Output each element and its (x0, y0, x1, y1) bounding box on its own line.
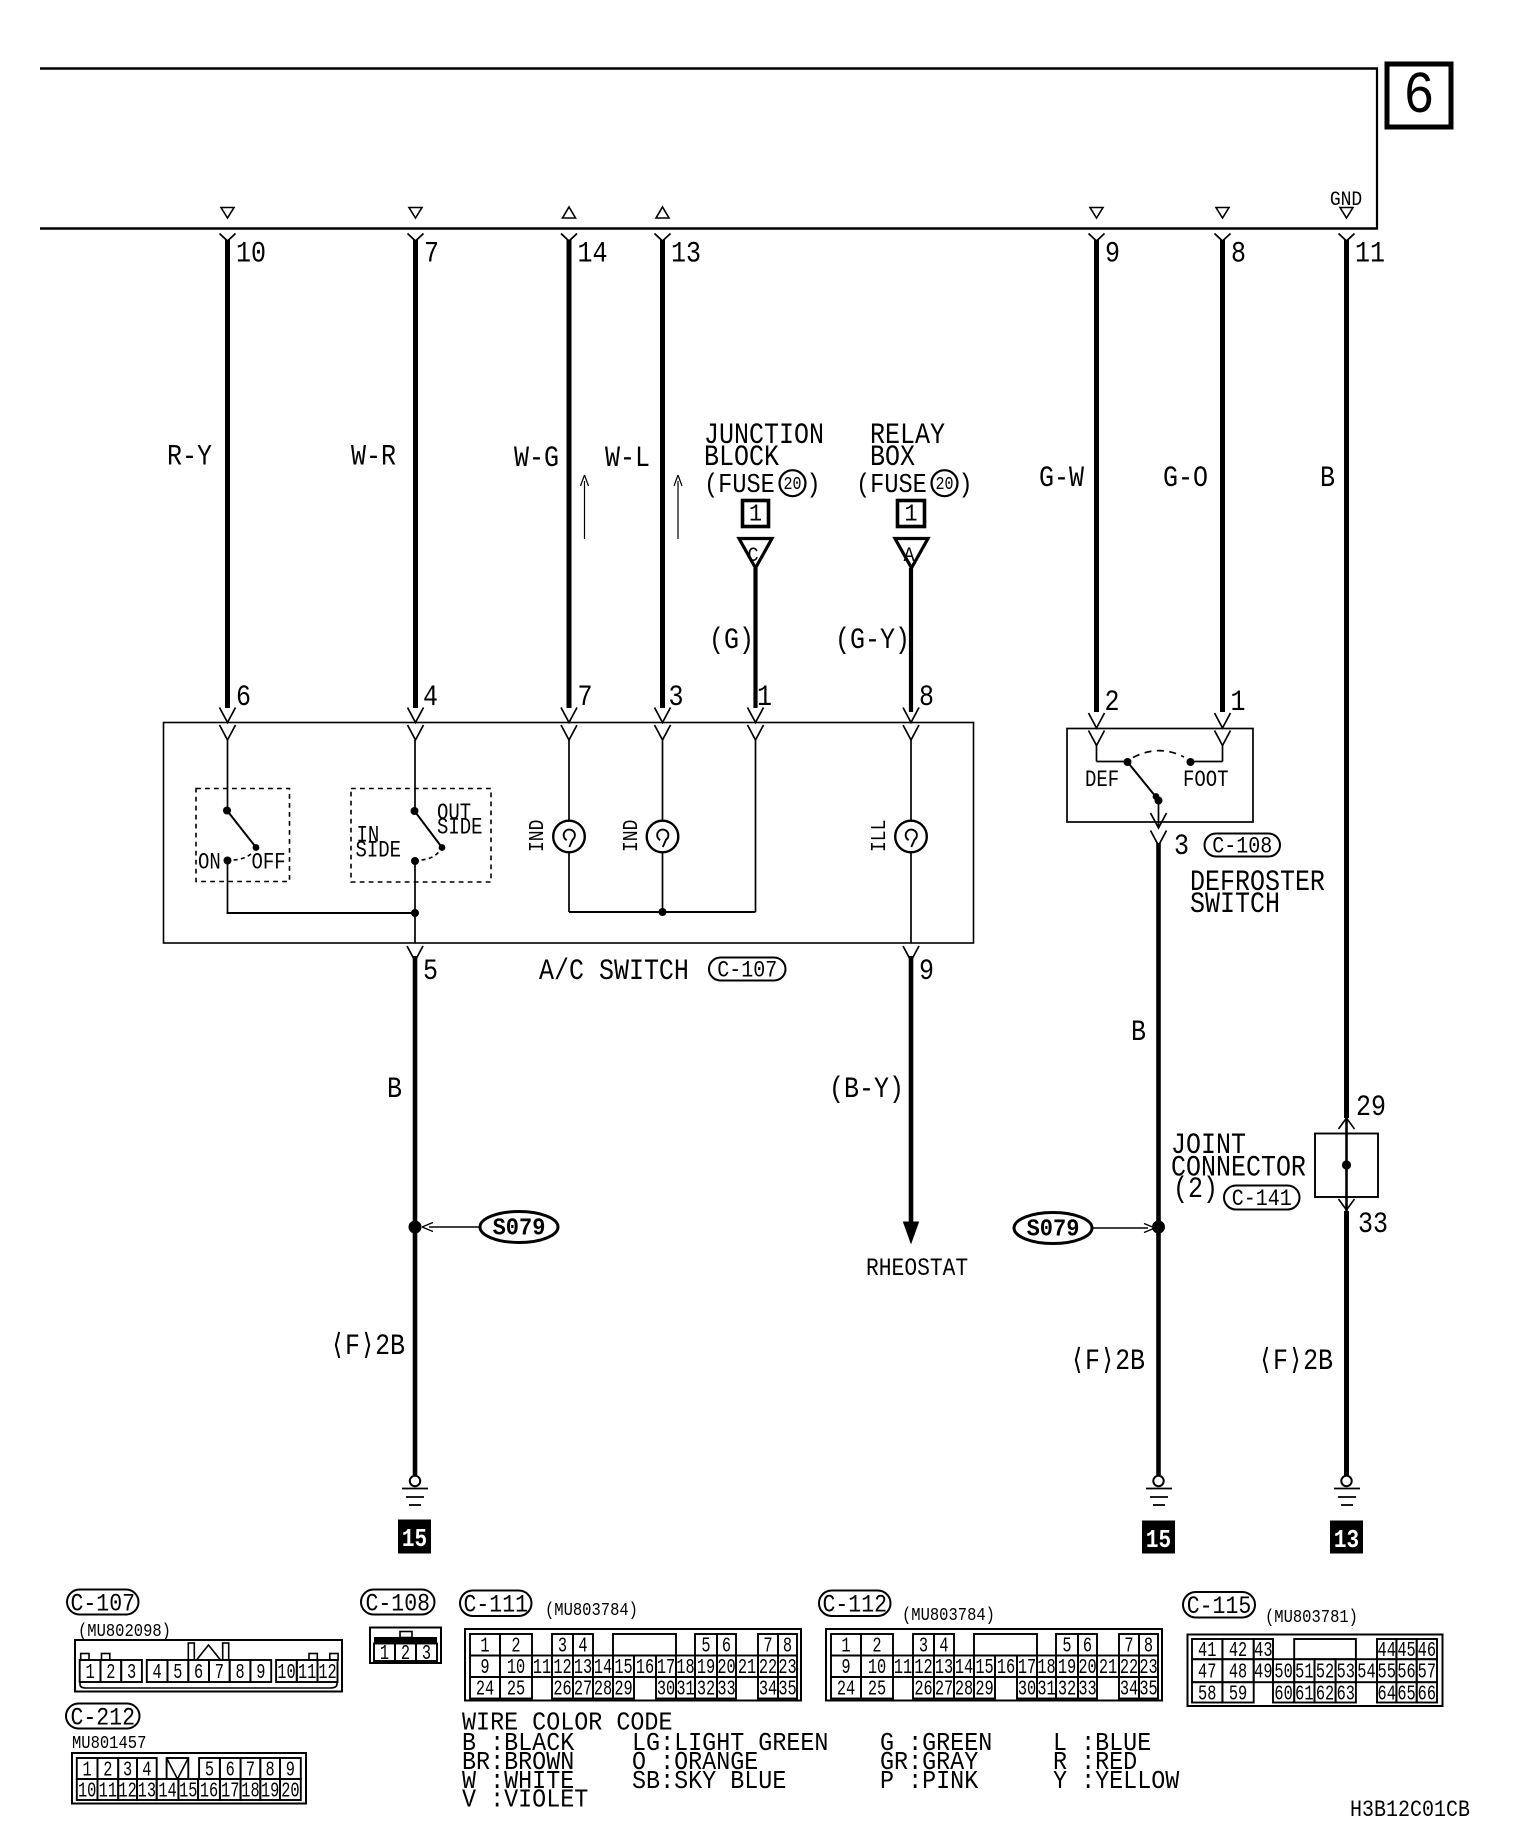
A/C switch pin 4 entry arrows (408, 708, 424, 723)
wire prong at pin 9 (1089, 234, 1105, 242)
svg-text:3: 3 (127, 1661, 136, 1685)
wire prong at pin 7 (408, 234, 424, 242)
svg-text:31: 31 (1037, 1678, 1055, 1702)
svg-text:9: 9 (919, 955, 934, 988)
joint connector body (C-141) (1315, 1134, 1378, 1198)
svg-text:15: 15 (1146, 1526, 1171, 1556)
svg-text:): ) (807, 470, 821, 501)
ground symbol (middle) (1153, 1476, 1163, 1486)
A/C switch pin 9 exit arrow (903, 946, 919, 961)
svg-text:C-115: C-115 (1187, 1593, 1251, 1621)
wire 13 (W-L) vertical (660, 240, 665, 708)
wire from IND lamp 1 down (568, 852, 570, 912)
svg-text:35: 35 (1139, 1678, 1157, 1702)
current-direction arrow beside wire 14 (584, 481, 586, 539)
IN SIDE contact (411, 857, 419, 865)
wire: switch output bus inside A/C switch (228, 912, 416, 914)
svg-text:3: 3 (669, 681, 684, 714)
svg-text:SB:SKY BLUE: SB:SKY BLUE (632, 1767, 786, 1797)
connector symbol (triangle) pin 7 (409, 208, 422, 219)
svg-text:14: 14 (158, 1779, 176, 1803)
svg-text:20: 20 (281, 1779, 299, 1803)
connector label C-108 (bottom, stadium) (361, 1590, 435, 1615)
svg-text:34: 34 (759, 1678, 777, 1702)
splice S079 (left) (480, 1212, 558, 1243)
svg-text:MU801457: MU801457 (72, 1734, 146, 1755)
svg-text:3: 3 (1174, 830, 1189, 863)
ON/OFF switch lever (to OFF) (227, 811, 257, 849)
svg-text:18: 18 (241, 1779, 259, 1803)
svg-text:V :VIOLET: V :VIOLET (462, 1785, 588, 1815)
connector drawing C-212 (72, 1753, 306, 1804)
svg-text:59: 59 (1229, 1682, 1247, 1706)
ON/OFF switch common contact (223, 807, 231, 815)
svg-text:15: 15 (402, 1525, 427, 1555)
svg-text:61: 61 (1295, 1682, 1313, 1706)
wire from common contact out of box (1158, 801, 1160, 829)
svg-text:⟨F⟩2B: ⟨F⟩2B (330, 1330, 405, 1363)
svg-text:RHEOSTAT: RHEOSTAT (866, 1255, 968, 1283)
svg-text:21: 21 (738, 1656, 756, 1680)
svg-text:57: 57 (1418, 1660, 1436, 1684)
IN/OUT switch lever (to OUT SIDE) (415, 811, 443, 848)
wire prong at pin 8 (1215, 234, 1231, 242)
svg-text:1: 1 (380, 1642, 389, 1666)
wire from IN SIDE contact down through box (414, 861, 416, 943)
svg-text:28: 28 (594, 1678, 612, 1702)
ground reference box 15 (middle) (1143, 1521, 1175, 1553)
IN/OUT switch common contact (411, 807, 419, 815)
svg-text:53: 53 (1337, 1660, 1355, 1684)
svg-text:Y :YELLOW: Y :YELLOW (1053, 1767, 1179, 1797)
svg-text:16: 16 (636, 1656, 654, 1680)
wire from pin 1 down to lamp bus (755, 740, 757, 912)
svg-text:29: 29 (614, 1678, 632, 1702)
svg-text:2: 2 (401, 1642, 410, 1666)
svg-text:C: C (747, 544, 758, 567)
svg-text:35: 35 (778, 1678, 796, 1702)
splice junction dot (left) (409, 1221, 422, 1234)
svg-text:19: 19 (261, 1779, 279, 1803)
svg-text:11: 11 (99, 1779, 117, 1803)
wire from A/C pin 9 toward rheostat (B-Y) (909, 956, 914, 1222)
svg-text:C-111: C-111 (464, 1591, 528, 1619)
connector label C-212 (stadium) (66, 1704, 140, 1729)
A/C switch pin 1 entry arrows (748, 708, 764, 723)
svg-text:S079: S079 (1027, 1216, 1080, 1243)
defroster switch pin 1 entry arrows (1215, 713, 1231, 728)
label IND (lamp 2, rotated) (619, 820, 644, 852)
svg-text:B: B (1131, 1016, 1146, 1049)
A/C switch body (C-107) (164, 723, 974, 944)
wire from pin 3 to IND lamp 2 (662, 740, 664, 821)
triangle connector A (relay box) (895, 539, 928, 569)
svg-text:27: 27 (574, 1678, 592, 1702)
connector drawing C-108 (370, 1628, 441, 1664)
defroster switch pin 2 entry arrows (1089, 713, 1105, 728)
svg-text:5: 5 (173, 1661, 182, 1685)
svg-text:7: 7 (215, 1661, 224, 1685)
wire 11 (B) ground wire vertical (1344, 240, 1349, 1118)
defroster common contact (1155, 797, 1163, 805)
wire from A/C pin 5 to ground (B) (413, 956, 418, 1475)
wire 10 (R-Y) vertical (225, 240, 230, 708)
fuse box symbol 1 (junction block) (743, 501, 769, 527)
joint connector internal dot (1342, 1160, 1351, 1169)
svg-text:21: 21 (1099, 1656, 1117, 1680)
svg-text:1: 1 (1231, 686, 1246, 719)
triangle connector C (junction block) (739, 539, 772, 569)
DEF contact (1124, 758, 1132, 766)
svg-text:W-R: W-R (351, 441, 396, 474)
svg-text:7: 7 (578, 681, 593, 714)
svg-text:58: 58 (1198, 1682, 1216, 1706)
connector label C-107 (stadium) (709, 958, 786, 981)
fuse box symbol 1 (relay box) (898, 501, 925, 527)
svg-text:12: 12 (318, 1661, 336, 1685)
circled fuse number 20 (junction block) (780, 470, 806, 496)
svg-text:63: 63 (1337, 1682, 1355, 1706)
current-direction arrow beside wire 13 (677, 481, 679, 539)
svg-text:50: 50 (1274, 1660, 1292, 1684)
arrow into joint connector (1339, 1118, 1355, 1129)
svg-text:56: 56 (1397, 1660, 1415, 1684)
svg-text:B: B (387, 1073, 402, 1106)
svg-text:): ) (959, 470, 973, 501)
wire into IN/OUT switch (414, 740, 416, 810)
svg-text:20: 20 (783, 474, 801, 495)
svg-text:51: 51 (1295, 1660, 1313, 1684)
defroster pin 3 exit arrows (1151, 813, 1167, 828)
connector drawing C-111 (465, 1629, 801, 1701)
svg-text:1: 1 (749, 501, 762, 528)
svg-text:11: 11 (298, 1661, 316, 1685)
defroster lever (DEF to common) (1128, 762, 1157, 797)
connector symbol (triangle) pin 13 (656, 207, 669, 218)
svg-text:DEF: DEF (1085, 769, 1119, 794)
wire through joint connector (thin) (1345, 1118, 1348, 1211)
svg-text:S079: S079 (493, 1215, 546, 1242)
svg-text:(G): (G) (709, 624, 754, 657)
svg-text:16: 16 (200, 1779, 218, 1803)
svg-text:⟨F⟩2B: ⟨F⟩2B (1258, 1345, 1333, 1378)
A/C switch pin 5 exit arrow (407, 946, 423, 961)
svg-text:33: 33 (1358, 1208, 1388, 1241)
connector label C-141 (stadium) (1224, 1186, 1300, 1210)
svg-text:1: 1 (86, 1661, 95, 1685)
wire prong at pin 11 (1339, 234, 1355, 242)
svg-text:(G-Y): (G-Y) (835, 624, 910, 657)
svg-text:10: 10 (277, 1661, 295, 1685)
svg-text:15: 15 (179, 1779, 197, 1803)
svg-text:R-Y: R-Y (167, 441, 212, 474)
svg-text:6: 6 (236, 681, 251, 714)
svg-text:SIDE: SIDE (356, 839, 402, 864)
svg-text:10: 10 (78, 1779, 96, 1803)
svg-text:48: 48 (1229, 1660, 1247, 1684)
svg-text:1: 1 (904, 501, 917, 528)
svg-text:11: 11 (894, 1656, 912, 1680)
ground symbol (right) (1341, 1476, 1351, 1486)
svg-text:8: 8 (1231, 238, 1246, 271)
svg-text:26: 26 (553, 1678, 571, 1702)
svg-text:C-107: C-107 (717, 959, 777, 985)
wire: lamp bus inside A/C switch (569, 911, 756, 913)
svg-text:29: 29 (975, 1678, 993, 1702)
dashed throw indicator (defroster) (1133, 751, 1184, 758)
wire 9 (G-W) vertical (1094, 240, 1099, 712)
wire prong at pin 13 (655, 234, 671, 242)
svg-text:2: 2 (1105, 686, 1120, 719)
junction of lamp bus with pin 3 wire (659, 908, 667, 916)
svg-text:8: 8 (235, 1661, 244, 1685)
svg-text:(MU803784): (MU803784) (545, 1601, 638, 1622)
ground symbol (left) (410, 1476, 420, 1486)
svg-text:16: 16 (997, 1656, 1015, 1680)
wire from IND lamp 2 down (662, 852, 664, 912)
svg-text:4: 4 (153, 1661, 162, 1685)
splice junction dot (right) (1152, 1221, 1165, 1234)
svg-text:17: 17 (221, 1779, 239, 1803)
wire: top feed bus line (40, 67, 1378, 70)
svg-text:27: 27 (935, 1678, 953, 1702)
wire prong at pin 10 (220, 234, 236, 242)
svg-text:55: 55 (1378, 1660, 1396, 1684)
svg-text:C-141: C-141 (1232, 1187, 1292, 1213)
wire 7 (W-R) vertical (413, 240, 418, 708)
svg-text:(MU803784): (MU803784) (902, 1606, 995, 1627)
wire 8 (G-O) vertical (1220, 240, 1225, 712)
svg-text:34: 34 (1120, 1678, 1138, 1702)
connector drawing C-107 (75, 1640, 342, 1692)
svg-text:⟨F⟩2B: ⟨F⟩2B (1070, 1345, 1145, 1378)
wire prong at pin 14 (561, 234, 577, 242)
svg-text:P :PINK: P :PINK (880, 1767, 978, 1797)
arrow out of joint connector (1339, 1199, 1355, 1210)
label IND (lamp 1, rotated) (525, 820, 550, 852)
svg-text:24: 24 (476, 1678, 494, 1702)
junction of ON/OFF bus with pin 5 wire (411, 909, 419, 917)
svg-text:(FUSE: (FUSE (856, 470, 927, 501)
defroster switch body (C-108) (1067, 729, 1253, 823)
svg-text:A: A (903, 544, 914, 567)
wire from defroster pin 3 to ground (B) (1156, 843, 1161, 1475)
svg-text:(MU803781): (MU803781) (1265, 1608, 1358, 1629)
A/C switch pin 8 entry arrows (903, 708, 919, 723)
svg-text:64: 64 (1378, 1682, 1396, 1706)
svg-text:11: 11 (1355, 238, 1385, 271)
svg-text:ILL: ILL (867, 820, 892, 852)
svg-text:60: 60 (1274, 1682, 1292, 1706)
ground reference box 15 (left) (399, 1520, 431, 1553)
svg-text:SIDE: SIDE (437, 816, 483, 841)
wire pin 2 to DEF contact (1096, 746, 1098, 762)
circled fuse number 20 (relay box) (932, 470, 958, 496)
svg-text:14: 14 (578, 238, 608, 271)
A/C ON/OFF switch dashed enclosure (196, 789, 290, 882)
A/C switch pin 6 entry arrows (220, 708, 236, 723)
A/C IN SIDE/OUT SIDE switch dashed enclosure (351, 789, 491, 883)
wire from pin 7 to IND lamp 1 (568, 740, 570, 821)
svg-text:IND: IND (525, 820, 550, 852)
svg-text:30: 30 (1018, 1678, 1036, 1702)
wire from pin 8 to ILL lamp (910, 740, 912, 821)
indicator lamp IND 1 (553, 821, 585, 853)
connector label C-115 (stadium) (1183, 1592, 1255, 1618)
wire 11 lower segment to ground (1344, 1211, 1349, 1476)
svg-text:IND: IND (619, 820, 644, 852)
svg-text:G-W: G-W (1039, 462, 1085, 495)
svg-text:13: 13 (671, 238, 701, 271)
svg-text:54: 54 (1357, 1660, 1375, 1684)
svg-text:13: 13 (1334, 1526, 1359, 1556)
svg-text:52: 52 (1316, 1660, 1334, 1684)
FOOT contact (1187, 758, 1195, 766)
svg-text:65: 65 (1397, 1682, 1415, 1706)
wire pin 1 to FOOT contact (1222, 746, 1224, 762)
wire from ON contact down to bus (227, 861, 229, 914)
svg-text:8: 8 (919, 681, 934, 714)
svg-text:6: 6 (1403, 62, 1434, 130)
svg-text:6: 6 (194, 1661, 203, 1685)
svg-text:W-L: W-L (605, 442, 650, 475)
indicator lamp IND 2 (647, 821, 679, 853)
dashed throw indicator (ON/OFF) (234, 852, 254, 861)
wire from junction block triangle C down to A/C switch pin 1 (753, 568, 757, 708)
svg-text:3: 3 (422, 1642, 431, 1666)
A/C switch pin 7 entry arrows (561, 708, 577, 723)
svg-text:13: 13 (138, 1779, 156, 1803)
svg-text:C-212: C-212 (71, 1704, 135, 1732)
svg-text:25: 25 (507, 1678, 525, 1702)
svg-text:20: 20 (935, 474, 953, 495)
wire from relay box triangle A down to A/C switch pin 8 (909, 568, 913, 712)
svg-text:11: 11 (533, 1656, 551, 1680)
svg-text:1: 1 (757, 681, 772, 714)
C-212 keyway (167, 1758, 189, 1779)
svg-text:(2): (2) (1173, 1173, 1218, 1206)
svg-text:32: 32 (697, 1678, 715, 1702)
connector symbol (triangle) pin 14 (563, 207, 576, 218)
svg-text:GND: GND (1330, 188, 1362, 211)
svg-text:4: 4 (423, 681, 438, 714)
svg-text:62: 62 (1316, 1682, 1334, 1706)
svg-text:C-112: C-112 (823, 1591, 887, 1619)
connector symbol (triangle) pin 11 (1340, 208, 1353, 219)
svg-text:(FUSE: (FUSE (704, 470, 775, 501)
svg-text:G-O: G-O (1163, 462, 1208, 495)
arrow from S079 (right) to splice point (1092, 1227, 1148, 1229)
ground reference box 13 (right) (1331, 1521, 1363, 1553)
svg-text:49: 49 (1254, 1660, 1272, 1684)
A/C switch pin 3 entry arrows (655, 708, 671, 723)
svg-text:ON: ON (198, 851, 221, 876)
svg-text:25: 25 (868, 1678, 886, 1702)
svg-text:47: 47 (1198, 1660, 1216, 1684)
connector drawing C-112 (826, 1629, 1162, 1701)
wire: lower bus line (connector edge) (40, 227, 1378, 230)
svg-text:32: 32 (1058, 1678, 1076, 1702)
svg-text:H3B12C01CB: H3B12C01CB (1350, 1798, 1470, 1824)
svg-text:24: 24 (837, 1678, 855, 1702)
svg-text:12: 12 (118, 1779, 136, 1803)
svg-text:2: 2 (106, 1661, 115, 1685)
wire 14 (W-G) vertical (567, 240, 572, 708)
svg-text:C-107: C-107 (71, 1590, 135, 1618)
svg-text:B: B (1320, 462, 1335, 495)
connector label C-107 (bottom, stadium) (67, 1590, 139, 1615)
connector symbol (triangle) pin 8 (1216, 208, 1229, 219)
svg-text:10: 10 (236, 238, 266, 271)
svg-text:OFF: OFF (252, 851, 286, 876)
svg-text:33: 33 (717, 1678, 735, 1702)
svg-text:FOOT: FOOT (1183, 769, 1229, 794)
connector label C-108 (stadium) (1205, 834, 1281, 857)
connector symbol (triangle) pin 9 (1090, 208, 1103, 219)
illumination lamp ILL (895, 821, 927, 853)
svg-text:66: 66 (1418, 1682, 1436, 1706)
svg-text:A/C SWITCH: A/C SWITCH (539, 955, 689, 988)
svg-text:W-G: W-G (514, 442, 559, 475)
svg-text:9: 9 (1105, 238, 1120, 271)
splice S079 (right) (1014, 1213, 1092, 1244)
svg-text:29: 29 (1356, 1091, 1386, 1124)
page number box 6 (1387, 64, 1451, 127)
connector symbol (triangle) pin 10 (221, 208, 234, 219)
connector drawing C-115 (1188, 1635, 1443, 1707)
wire into ON/OFF switch (227, 740, 229, 810)
arrowhead to RHEOSTAT (904, 1222, 919, 1243)
svg-text:26: 26 (914, 1678, 932, 1702)
svg-text:31: 31 (676, 1678, 694, 1702)
label ILL (rotated) (867, 820, 892, 852)
connector label C-111 (stadium) (460, 1591, 532, 1617)
dashed throw indicator (IN/OUT) (422, 851, 440, 860)
svg-text:C-108: C-108 (1212, 835, 1272, 861)
svg-text:30: 30 (657, 1678, 675, 1702)
wire from ILL lamp to pin 9 (910, 852, 912, 943)
svg-text:9: 9 (256, 1661, 265, 1685)
svg-text:SWITCH: SWITCH (1190, 888, 1280, 921)
ON contact (224, 857, 232, 865)
svg-text:(B-Y): (B-Y) (829, 1073, 904, 1106)
svg-text:5: 5 (423, 955, 438, 988)
svg-text:28: 28 (955, 1678, 973, 1702)
svg-text:33: 33 (1078, 1678, 1096, 1702)
svg-text:7: 7 (424, 238, 439, 271)
svg-text:C-108: C-108 (366, 1590, 430, 1618)
connector label C-112 (stadium) (819, 1591, 891, 1617)
wire: right edge of feed bus (1376, 68, 1378, 229)
arrow from S079 to splice point (429, 1226, 480, 1228)
